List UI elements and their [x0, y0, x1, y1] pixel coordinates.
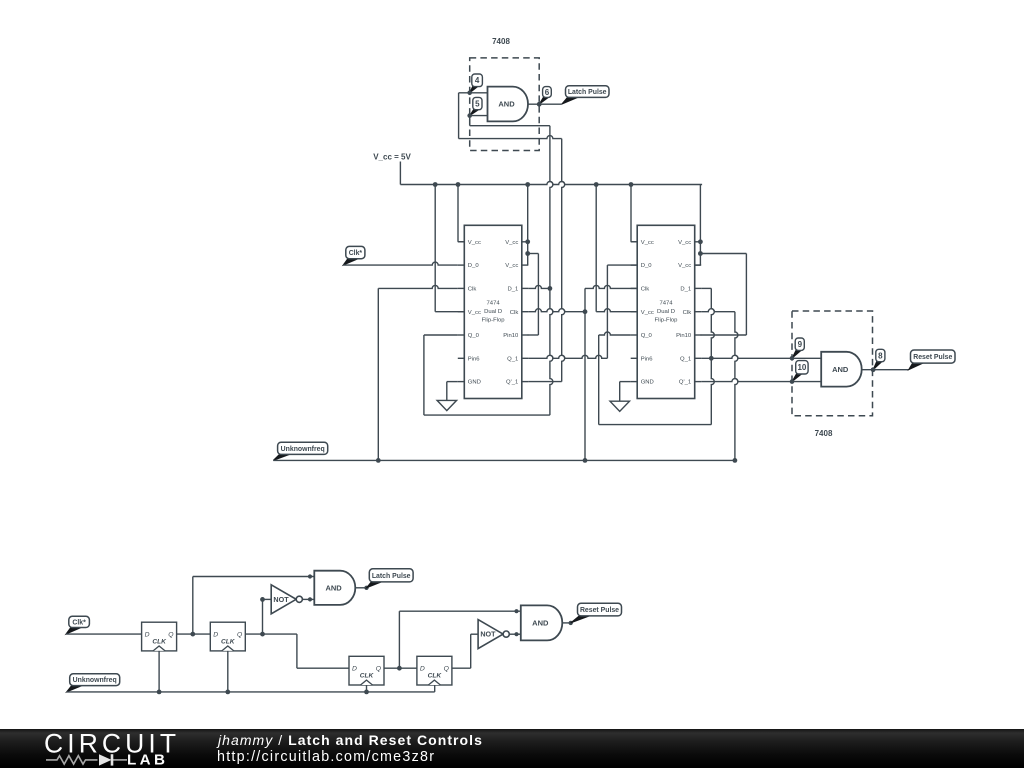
svg-text:7474: 7474 [659, 301, 673, 307]
svg-text:D_0: D_0 [468, 263, 480, 269]
wire FF4 CLK riser [434, 685, 436, 692]
footer url text [217, 749, 435, 765]
wire Unknownfreq bus [273, 458, 737, 463]
svg-text:CLK: CLK [152, 638, 167, 645]
wire Unknownfreq bus (logic diagram) [67, 690, 435, 695]
wire FF2 CLK riser [227, 651, 229, 692]
wire U1 output pin6 [528, 102, 562, 107]
wire U3 Q_1 to U4 pin9 [701, 355, 821, 358]
svg-text:AND: AND [325, 584, 342, 593]
svg-text:7408: 7408 [815, 429, 833, 438]
ground (U3) [610, 401, 630, 411]
footer title text [218, 732, 483, 748]
wire U3 Q'_1 to U4 pin10 [701, 379, 821, 382]
flag Reset Pulse (logic diagram) [571, 603, 622, 623]
svg-text:Q_0: Q_0 [468, 333, 480, 339]
svg-text:V_cc: V_cc [468, 240, 481, 246]
svg-text:5: 5 [475, 100, 480, 109]
svg-text:Q_0: Q_0 [641, 333, 653, 339]
IC U3 7474 Dual D Flip-Flop [631, 225, 702, 398]
wire FF3 CLK riser [366, 685, 368, 692]
wire FF1 Q to AND3 input1 [193, 574, 314, 634]
svg-text:Q_1: Q_1 [507, 356, 518, 362]
svg-text:AND: AND [498, 100, 515, 109]
svg-text:7474: 7474 [487, 301, 501, 307]
flip-flop FF3 [349, 656, 384, 685]
svg-text:Q_1: Q_1 [680, 356, 691, 362]
NOT gate NOT2 [478, 620, 509, 649]
wire rail to U3 V_cc pin3 [596, 185, 637, 312]
svg-text:AND: AND [832, 365, 849, 374]
label 7408 (top) [492, 37, 510, 46]
wire U2 GND [447, 382, 458, 401]
wire U2 Pin10 tie-high [528, 254, 539, 336]
svg-text:D: D [145, 632, 150, 639]
IC U2 7474 Dual D Flip-Flop [458, 225, 529, 398]
AND gate AND4 [521, 605, 563, 640]
flag Reset Pulse (main) [909, 350, 955, 370]
svg-text:Reset Pulse: Reset Pulse [580, 607, 619, 614]
svg-text:LAB: LAB [127, 752, 168, 768]
wire Clk* to FF1 D [66, 633, 142, 635]
svg-text:V_cc: V_cc [641, 310, 654, 316]
svg-text:V_cc: V_cc [641, 240, 654, 246]
svg-text:D_0: D_0 [641, 263, 653, 269]
wire FF1 CLK riser [158, 651, 160, 692]
svg-text:CLK: CLK [428, 673, 443, 680]
wire FF2 Q to FF3 D [245, 634, 349, 668]
svg-text:V_cc: V_cc [678, 263, 691, 269]
svg-text:Flip-Flop: Flip-Flop [655, 318, 679, 324]
svg-text:Pin10: Pin10 [503, 333, 519, 339]
wire FF3 Q to FF4 D [384, 666, 417, 671]
svg-text:Flip-Flop: Flip-Flop [482, 318, 506, 324]
svg-text:6: 6 [545, 88, 550, 97]
label 7408 (right) [815, 429, 833, 438]
wire U2 Q_0 under-loop [424, 335, 550, 415]
svg-text:D: D [420, 666, 425, 673]
svg-text:Latch Pulse: Latch Pulse [372, 573, 411, 580]
wire Vcc rail [400, 162, 702, 185]
flip-flop FF4 [417, 656, 452, 685]
svg-text:D: D [352, 666, 357, 673]
flip-flop FF2 [210, 622, 245, 651]
AND gate U1 (7408) [488, 87, 529, 122]
wire FF4 Q to NOT2 [452, 634, 478, 668]
wire U3 right Clk to Unknownfreq [701, 309, 738, 461]
svg-text:D_1: D_1 [507, 287, 518, 293]
svg-text:Pin10: Pin10 [676, 333, 692, 339]
wire FF3 Q to AND4 input1 [399, 609, 520, 668]
flip-flop FF1 [142, 622, 177, 651]
svg-text:NOT: NOT [273, 595, 289, 604]
svg-text:Q: Q [376, 666, 382, 673]
wire U2 Q_1 to U3 D_0 [528, 265, 637, 358]
svg-text:CLK: CLK [360, 673, 375, 680]
AND gate U4 [821, 352, 862, 387]
svg-text:10: 10 [797, 363, 806, 372]
wire FF1 Q to FF2 D [177, 632, 211, 637]
svg-text:CLK: CLK [221, 638, 236, 645]
wire U3 D_1 to Q_1 [701, 288, 714, 360]
svg-text:Q: Q [237, 632, 243, 639]
svg-text:Clk*: Clk* [72, 619, 86, 626]
wire U1 pin5 input from U2 Q_0/D_1 [470, 116, 553, 416]
svg-text:9: 9 [798, 340, 803, 349]
wire NOT1 to AND3 input2 [302, 597, 314, 601]
footer bar [0, 729, 1024, 768]
svg-text:Clk: Clk [468, 287, 477, 293]
wire U1 pin4 input from U2 Q'_1 [459, 93, 565, 382]
wire rail to U3 V_cc pin1 [631, 185, 637, 242]
AND gate AND3 [314, 571, 355, 605]
svg-text:V_cc = 5V: V_cc = 5V [373, 153, 411, 162]
svg-text:D: D [213, 632, 218, 639]
svg-text:V_cc: V_cc [468, 310, 481, 316]
label Vcc source [373, 153, 411, 162]
wire NOT2 to AND4 input2 [509, 632, 521, 636]
pin tag 9 [790, 338, 805, 361]
flag Unknownfreq input [273, 442, 327, 460]
wire Vcc rail end drop to U3 V_cc pins [695, 185, 703, 266]
svg-text:AND: AND [532, 619, 549, 628]
svg-text:GND: GND [641, 380, 654, 386]
wire U2 Clk-left to Unknownfreq [378, 285, 458, 460]
wire rail to U2 V_cc pin1 [458, 185, 464, 242]
svg-text:Clk: Clk [683, 310, 692, 316]
svg-text:8: 8 [878, 351, 883, 360]
svg-text:Q'_1: Q'_1 [679, 380, 691, 386]
svg-text:Reset Pulse: Reset Pulse [913, 354, 952, 361]
ground (U2) [437, 400, 457, 410]
svg-text:Q'_1: Q'_1 [506, 380, 518, 386]
svg-text:Unknownfreq: Unknownfreq [73, 677, 117, 684]
svg-text:V_cc: V_cc [505, 263, 518, 269]
svg-text:Clk: Clk [510, 310, 519, 316]
svg-text:Dual D: Dual D [657, 309, 675, 315]
dashed box U4 7408 [792, 311, 873, 416]
pin tag 5 [467, 97, 482, 117]
pin tag 8 [871, 349, 885, 372]
wire rail to U2 V_cc pin3 [435, 185, 464, 312]
wire AND3 output [355, 586, 368, 590]
pin tag 10 [790, 361, 808, 384]
flag Latch Pulse (top) [562, 86, 609, 105]
wire rail to U2 right V_cc pins [525, 185, 530, 266]
wire U3 Pin10 tie-high [700, 254, 746, 336]
svg-text:Unknownfreq: Unknownfreq [281, 446, 325, 453]
wire AND4 output [562, 621, 573, 625]
node junction dots on Vcc rail [433, 182, 634, 187]
svg-text:V_cc: V_cc [678, 240, 691, 246]
svg-text:Clk*: Clk* [349, 250, 363, 257]
svg-text:7408: 7408 [492, 37, 510, 46]
svg-text:Pin6: Pin6 [468, 356, 481, 362]
NOT gate NOT1 [271, 585, 302, 614]
svg-text:GND: GND [468, 380, 481, 386]
CircuitLab logo [43, 730, 233, 768]
wire Clk* to U2 D_0 [343, 262, 458, 265]
wire U4 output pin8 [862, 367, 909, 372]
svg-text:Pin6: Pin6 [641, 356, 654, 362]
svg-text:Clk: Clk [641, 287, 650, 293]
pin tag 4 [467, 74, 482, 95]
wire FF2 Q tap to NOT1 [260, 597, 271, 636]
svg-text:NOT: NOT [480, 630, 496, 639]
svg-text:Q: Q [444, 666, 450, 673]
wire U2 D_1 stub [528, 285, 550, 288]
svg-text:4: 4 [475, 76, 480, 85]
svg-text:Q: Q [168, 632, 174, 639]
svg-text:D_1: D_1 [680, 287, 691, 293]
pin tag 6 [537, 87, 551, 107]
wire U3 Q_0 under-loop [599, 332, 715, 425]
dashed box U1 7408 [470, 58, 540, 151]
flag Clk* input [343, 246, 365, 265]
svg-text:Dual D: Dual D [484, 309, 502, 315]
svg-text:Latch Pulse: Latch Pulse [568, 89, 607, 96]
flag Clk* (logic diagram) [66, 616, 89, 634]
svg-text:V_cc: V_cc [505, 240, 518, 246]
flag Unknownfreq (logic diagram) [67, 674, 120, 692]
flag Latch Pulse (logic diagram) [367, 569, 414, 588]
wire clk net U2 right / U3 left [528, 285, 637, 460]
wire U3 GND [620, 382, 631, 402]
